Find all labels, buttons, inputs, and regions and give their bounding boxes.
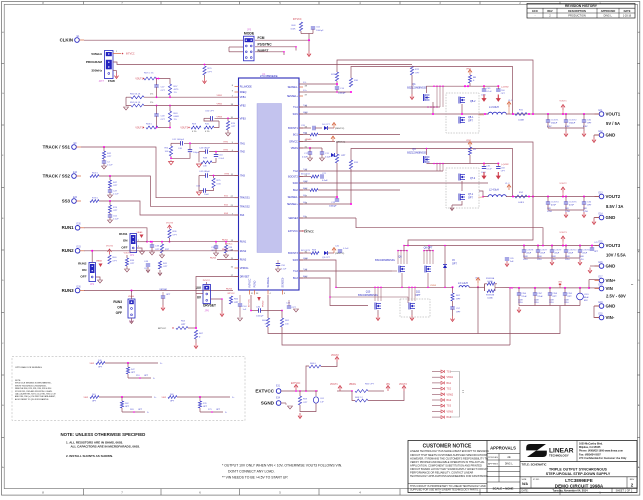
- svg-text:* OUTPUT 10V ONLY WHEN VIN < 1: * OUTPUT 10V ONLY WHEN VIN < 10V, OTHERW…: [222, 463, 342, 467]
- svg-text:10V / 5.5A: 10V / 5.5A: [606, 253, 626, 258]
- svg-text:VSW: VSW: [161, 397, 166, 399]
- svg-text:VBIAS: VBIAS: [137, 231, 144, 234]
- svg-text:TECHNOLOGY APPLICATIONS ENGINE: TECHNOLOGY APPLICATIONS ENGINEERING FOR …: [410, 474, 489, 478]
- svg-text:2.2uF: 2.2uF: [538, 296, 544, 298]
- svg-text:2: 2: [138, 240, 139, 242]
- svg-text:2. INSTALL SHUNTS AS SHOWN.: 2. INSTALL SHUNTS AS SHOWN.: [66, 454, 113, 458]
- svg-text:8.5V / 3A: 8.5V / 3A: [606, 204, 623, 209]
- svg-text:TECHNOLOGY: TECHNOLOGY: [549, 454, 569, 458]
- svg-text:0 1%: 0 1%: [205, 131, 210, 133]
- svg-text:OPT: OPT: [231, 126, 236, 128]
- svg-text:VOUT3: VOUT3: [606, 243, 621, 248]
- svg-text:E34: E34: [276, 397, 281, 399]
- svg-text:NOTE:: NOTE:: [15, 380, 21, 382]
- svg-text:SHEET 1 OF 2: SHEET 1 OF 2: [616, 489, 633, 492]
- svg-text:G: G: [638, 93, 640, 95]
- svg-text:DING L.: DING L.: [505, 464, 514, 466]
- svg-text:TITLE: SCHEMATIC: TITLE: SCHEMATIC: [522, 462, 547, 466]
- svg-text:SENSE3: SENSE3: [288, 217, 298, 220]
- svg-text:VPROG: VPROG: [240, 267, 249, 270]
- svg-text:RUN3: RUN3: [210, 258, 217, 260]
- svg-text:SW3: SW3: [303, 258, 309, 260]
- svg-text:QT-1: QT-1: [468, 194, 474, 196]
- svg-text:4075: 4075: [174, 89, 180, 91]
- svg-text:OPT: OPT: [587, 205, 592, 207]
- svg-text:DATE: DATE: [624, 9, 631, 13]
- svg-text:ON: ON: [82, 268, 87, 272]
- svg-text:PCB DES: PCB DES: [488, 457, 498, 459]
- svg-text:10nF: 10nF: [204, 194, 210, 196]
- svg-text:0.006: 0.006: [487, 281, 493, 283]
- svg-text:OPT: OPT: [161, 90, 166, 92]
- svg-text:150uF: 150uF: [569, 123, 576, 125]
- svg-text:INTVCC: INTVCC: [249, 298, 251, 307]
- svg-text:VIN2: VIN2: [466, 140, 472, 142]
- svg-text:TG1: TG1: [293, 106, 298, 109]
- svg-text:E10: E10: [73, 172, 78, 174]
- svg-text:Phone: (408)432-1900 www.lin: Phone: (408)432-1900 www.linear.com: [579, 450, 624, 453]
- svg-text:SENSE1-: SENSE1-: [288, 86, 298, 89]
- svg-text:OFF: OFF: [121, 245, 127, 249]
- svg-text:OPT: OPT: [113, 261, 118, 263]
- svg-text:OPT: OPT: [456, 299, 461, 301]
- svg-text:0.1uF: 0.1uF: [487, 169, 493, 171]
- svg-text:COUT9: COUT9: [555, 250, 563, 252]
- svg-text:150uF: 150uF: [551, 123, 558, 125]
- svg-text:E15: E15: [598, 241, 603, 243]
- svg-text:E30: E30: [77, 224, 82, 226]
- svg-text:PERFORMANCE OR RELIABILITY. C: PERFORMANCE OR RELIABILITY. CONTACT LINE…: [410, 471, 473, 475]
- svg-text:E16: E16: [598, 262, 603, 264]
- svg-text:VOUT1: VOUT1: [559, 101, 567, 103]
- svg-text:TRACK / SS1: TRACK / SS1: [43, 144, 71, 149]
- svg-text:SENSE3-: SENSE3-: [282, 277, 285, 287]
- svg-text:1%: 1%: [150, 102, 153, 104]
- svg-text:E19: E19: [598, 302, 603, 304]
- svg-text:BG3: BG3: [293, 277, 298, 280]
- svg-text:APPROVED: APPROVED: [601, 9, 616, 13]
- svg-text:10K: 10K: [165, 151, 169, 153]
- svg-text:CUSTOMER NOTICE: CUSTOMER NOTICE: [423, 444, 472, 450]
- svg-text:D6 OPT: D6 OPT: [322, 124, 331, 126]
- svg-text:RUN3: RUN3: [62, 288, 75, 293]
- svg-text:G: G: [2, 93, 4, 95]
- svg-text:SIZE: SIZE: [522, 479, 527, 481]
- svg-text:TRK/SS2: TRK/SS2: [240, 205, 251, 208]
- svg-text:47uF: 47uF: [551, 205, 557, 207]
- svg-text:RUN1: RUN1: [240, 241, 247, 244]
- svg-text:(DRVCC): (DRVCC): [335, 253, 344, 255]
- svg-text:OPT: OPT: [144, 268, 149, 270]
- svg-text:47uF: 47uF: [569, 205, 575, 207]
- svg-text:CALCULATE RS3, R47 & C14, RS1,: CALCULATE RS3, R47 & C14, RS1, RS2 & C19: [15, 393, 56, 396]
- svg-text:BURST: BURST: [258, 49, 269, 53]
- svg-text:RUN1: RUN1: [119, 232, 128, 236]
- svg-text:OPT: OPT: [341, 155, 346, 157]
- svg-text:VOUT3: VOUT3: [124, 253, 132, 255]
- svg-text:VOUT1: VOUT1: [135, 79, 143, 81]
- svg-text:PROGRAM: PROGRAM: [86, 60, 103, 64]
- svg-text:OPT: OPT: [107, 156, 112, 158]
- svg-text:OPT: OPT: [166, 294, 171, 296]
- svg-text:TRACK / SS2: TRACK / SS2: [43, 173, 71, 178]
- svg-text:OPT: OPT: [415, 72, 420, 74]
- svg-text:BG1: BG1: [447, 383, 452, 385]
- svg-text:100K: 100K: [290, 29, 296, 31]
- svg-text:-: -: [535, 15, 536, 18]
- svg-text:GND: GND: [606, 303, 616, 308]
- svg-text:EXTVCC: EXTVCC: [255, 388, 274, 393]
- svg-text:VBIAS: VBIAS: [349, 383, 356, 386]
- svg-text:SPICE DCR SENSING IS IMPLEMENT: SPICE DCR SENSING IS IMPLEMENTED,: [15, 383, 52, 385]
- svg-text:0.1uF: 0.1uF: [487, 91, 493, 93]
- svg-text:3: 3: [138, 246, 139, 248]
- svg-text:JP1: JP1: [130, 254, 135, 257]
- svg-text:RUN2: RUN2: [222, 249, 229, 251]
- svg-text:SW1: SW1: [303, 112, 309, 114]
- svg-text:BSZ123N08NS3G: BSZ123N08NS3G: [407, 152, 427, 155]
- svg-text:VOUT3: VOUT3: [399, 384, 407, 386]
- svg-text:C43 680pF: C43 680pF: [199, 147, 210, 149]
- svg-text:22uF: 22uF: [541, 253, 546, 255]
- svg-text:SGND: SGND: [261, 400, 275, 405]
- svg-text:RUN2: RUN2: [62, 248, 75, 253]
- svg-text:E12: E12: [598, 131, 603, 133]
- svg-text:ALL CAPACITORS ARE IN MICROFAR: ALL CAPACITORS ARE IN MICROFARADS, 0603.: [71, 445, 141, 449]
- svg-text:100V: 100V: [534, 300, 539, 302]
- svg-text:BG2: BG2: [293, 189, 298, 192]
- svg-text:E36: E36: [77, 286, 82, 288]
- svg-text:INTVCC: INTVCC: [126, 54, 135, 56]
- svg-text:68uF: 68uF: [584, 297, 589, 299]
- svg-text:COUT10: COUT10: [569, 250, 578, 252]
- svg-text:VFB2: VFB2: [240, 105, 247, 108]
- svg-text:DATE:: DATE:: [522, 489, 529, 492]
- svg-text:SW3: SW3: [293, 259, 299, 262]
- svg-text:INTVCC: INTVCC: [227, 293, 235, 295]
- svg-text:VSTBM: VSTBM: [159, 289, 166, 291]
- svg-text:COUT4: COUT4: [551, 202, 559, 204]
- svg-text:1uF: 1uF: [320, 402, 324, 404]
- svg-text:ITH3: ITH3: [240, 175, 246, 178]
- svg-text:ON: ON: [123, 239, 128, 243]
- svg-text:VOUT2: VOUT2: [606, 194, 621, 199]
- svg-text:LTC3899EFE: LTC3899EFE: [565, 478, 593, 483]
- svg-text:GND: GND: [606, 263, 616, 268]
- svg-text:VBIAS: VBIAS: [291, 147, 298, 150]
- svg-text:RUN3: RUN3: [113, 300, 122, 304]
- svg-text:VOUT2: VOUT2: [559, 183, 567, 185]
- svg-text:BOOST2: BOOST2: [301, 174, 311, 176]
- svg-text:BSZ123N08NS3G: BSZ123N08NS3G: [407, 87, 427, 90]
- svg-text:INTVCC: INTVCC: [293, 19, 302, 21]
- svg-text:OPT: OPT: [113, 185, 118, 187]
- svg-text:RSNS3A: RSNS3A: [486, 277, 495, 280]
- svg-text:** VIN NEEDS TO BE >4.5V TO ST: ** VIN NEEDS TO BE >4.5V TO START UP.: [222, 475, 288, 479]
- svg-text:BG2: BG2: [447, 400, 452, 402]
- svg-text:SENSE3+: SENSE3+: [267, 276, 270, 287]
- svg-text:1%: 1%: [174, 119, 177, 121]
- svg-text:EXTVCC: EXTVCC: [288, 230, 298, 233]
- svg-text:COUT5: COUT5: [569, 202, 577, 204]
- svg-text:RUN3: RUN3: [240, 259, 247, 262]
- svg-text:100V: 100V: [549, 300, 554, 302]
- svg-text:VOUT3: VOUT3: [180, 128, 188, 130]
- svg-text:AND RS6, R30 (x) C56 PER THE D: AND RS6, R30 (x) C56 PER THE DATA SHEET,: [15, 395, 56, 398]
- svg-text:E13: E13: [598, 192, 603, 194]
- svg-text:ECO: ECO: [532, 9, 538, 13]
- svg-text:OPT: OPT: [181, 324, 186, 326]
- svg-text:E17: E17: [598, 276, 603, 278]
- svg-text:100V: 100V: [518, 300, 523, 302]
- svg-text:TG2: TG2: [293, 170, 298, 173]
- svg-text:S-: S-: [225, 412, 227, 414]
- svg-text:SCALE = NONE: SCALE = NONE: [493, 487, 514, 491]
- svg-text:OPT: OPT: [303, 402, 308, 404]
- svg-text:TG3: TG3: [447, 406, 452, 408]
- svg-text:R52 66.1K: R52 66.1K: [130, 102, 141, 104]
- svg-text:REMOVE RS6, R29, R31, R30, R33: REMOVE RS6, R29, R31, R30, R33 & R34: [15, 388, 51, 390]
- svg-text:OPT: OPT: [501, 93, 506, 95]
- svg-text:1%: 1%: [150, 94, 153, 96]
- svg-text:0.013: 0.013: [518, 202, 524, 204]
- svg-text:VSW3: VSW3: [447, 411, 454, 413]
- svg-text:0.1uF: 0.1uF: [113, 194, 119, 196]
- svg-text:E31: E31: [276, 385, 281, 387]
- svg-text:R66 0: R66 0: [310, 363, 317, 365]
- svg-text:ITH3: ITH3: [224, 174, 230, 176]
- svg-text:INTVCC: INTVCC: [158, 328, 167, 330]
- svg-text:SUPPLIED FOR USE WITH LINEAR T: SUPPLIED FOR USE WITH LINEAR TECHNOLOGY …: [410, 488, 479, 491]
- svg-text:DRVSET: DRVSET: [240, 276, 250, 279]
- svg-text:OPT: OPT: [587, 123, 592, 125]
- svg-text:RUN3: RUN3: [226, 289, 233, 291]
- svg-text:VSW1: VSW1: [447, 377, 454, 379]
- svg-text:L1 6.8uH: L1 6.8uH: [489, 106, 499, 109]
- svg-text:APP ENG: APP ENG: [488, 463, 498, 466]
- svg-text:SS3: SS3: [62, 198, 71, 203]
- svg-text:RUN1: RUN1: [62, 225, 75, 230]
- svg-text:VIN: VIN: [606, 286, 613, 291]
- svg-text:VFB2: VFB2: [217, 104, 223, 106]
- svg-text:(+)VIN2: (+)VIN2: [501, 87, 509, 89]
- svg-text:R65 OPT: R65 OPT: [365, 384, 375, 386]
- svg-text:SENSE1+: SENSE1+: [287, 95, 298, 98]
- svg-text:2.2uF: 2.2uF: [522, 296, 528, 298]
- svg-text:DRVSET: DRVSET: [203, 304, 216, 308]
- svg-text:ITH2: ITH2: [223, 150, 229, 152]
- svg-text:BSC046N08NS3G: BSC046N08NS3G: [375, 259, 395, 262]
- svg-text:VOUT2: VOUT2: [331, 355, 339, 357]
- svg-text:LTC3899EFE: LTC3899EFE: [260, 74, 278, 78]
- svg-text:VSW2: VSW2: [478, 197, 485, 199]
- svg-text:Q8 OPT: Q8 OPT: [424, 247, 433, 250]
- svg-text:SW1: SW1: [293, 113, 299, 116]
- svg-text:REV: REV: [630, 479, 635, 481]
- svg-text:COUT2: COUT2: [569, 120, 577, 122]
- svg-text:VOUT2: VOUT2: [106, 246, 114, 248]
- svg-text:R04 0: R04 0: [92, 173, 99, 175]
- svg-text:FREQ: FREQ: [240, 91, 247, 94]
- svg-text:FSW: FSW: [108, 79, 115, 83]
- svg-text:COUT7: COUT7: [541, 250, 549, 252]
- svg-text:DRVCC: DRVCC: [289, 141, 298, 144]
- svg-text:0.1uF: 0.1uF: [281, 269, 287, 271]
- svg-text:BOOST2: BOOST2: [288, 176, 298, 179]
- svg-text:OPT: OPT: [130, 263, 135, 265]
- svg-text:S2-: S2-: [303, 195, 307, 197]
- svg-text:APPLICATION. COMPONENT SUBSTI: APPLICATION. COMPONENT SUBSTITUTION AND …: [410, 463, 482, 467]
- svg-text:PGND: PGND: [254, 280, 257, 287]
- svg-text:E33: E33: [77, 247, 82, 249]
- svg-text:VOUT3: VOUT3: [166, 223, 174, 225]
- svg-text:ITH2: ITH2: [240, 151, 246, 154]
- svg-text:REV: REV: [547, 9, 553, 13]
- svg-text:INTVCC: INTVCC: [249, 278, 252, 287]
- svg-text:1000pF: 1000pF: [338, 93, 346, 95]
- svg-text:RUN2: RUN2: [240, 250, 247, 253]
- svg-text:QT-2: QT-2: [470, 178, 476, 180]
- svg-text:BG2: BG2: [303, 188, 308, 190]
- svg-text:1000pF: 1000pF: [256, 316, 264, 318]
- svg-text:VIN+: VIN+: [606, 278, 616, 283]
- svg-text:BOOST3: BOOST3: [288, 252, 298, 255]
- svg-text:VFB3: VFB3: [240, 117, 247, 120]
- svg-text:SW2: SW2: [293, 182, 299, 185]
- svg-text:BG3: BG3: [303, 276, 308, 278]
- svg-text:BG3: BG3: [447, 417, 452, 419]
- svg-text:1uF: 1uF: [243, 309, 247, 311]
- svg-text:1000pF: 1000pF: [316, 30, 324, 32]
- svg-text:LINEAR TECHNOLOGY HAS MADE A B: LINEAR TECHNOLOGY HAS MADE A BEST EFFORT…: [410, 449, 489, 453]
- svg-text:C41 1000pF: C41 1000pF: [172, 139, 185, 141]
- svg-text:1: 1: [116, 51, 117, 53]
- svg-text:0.006: 0.006: [487, 297, 493, 299]
- svg-text:R67 0 1%: R67 0 1%: [144, 73, 154, 75]
- svg-text:HOWEVER, IT REMAINS THE CUSTOM: HOWEVER, IT REMAINS THE CUSTOMER'S RESPO…: [410, 456, 488, 460]
- svg-text:E14: E14: [598, 213, 603, 215]
- svg-text:PGND: PGND: [263, 300, 265, 307]
- svg-text:0.008: 0.008: [518, 120, 524, 122]
- svg-text:22uF: 22uF: [555, 253, 560, 255]
- svg-text:RSNS3B: RSNS3B: [486, 295, 495, 297]
- svg-text:JP6: JP6: [205, 309, 210, 313]
- svg-text:VERIFY PROPER AND RELIABLE OPE: VERIFY PROPER AND RELIABLE OPERATION IN …: [410, 460, 485, 464]
- svg-text:GND: GND: [606, 132, 616, 137]
- svg-text:GND: GND: [606, 215, 616, 220]
- svg-text:1%: 1%: [174, 92, 177, 94]
- svg-text:OPTIONAL DCR SENSING: OPTIONAL DCR SENSING: [15, 366, 42, 369]
- svg-text:NOTE: UNLESS OTHERWISE SPECIFI: NOTE: UNLESS OTHERWISE SPECIFIED: [61, 432, 146, 437]
- svg-text:L3 1.2uH: L3 1.2uH: [458, 282, 468, 285]
- svg-text:LTC Confidential-For Customer: LTC Confidential-For Customer Use Only: [579, 457, 627, 460]
- svg-text:DON'T CONNECT ANY LOAD.: DON'T CONNECT ANY LOAD.: [228, 469, 275, 473]
- svg-text:VOUT3: VOUT3: [135, 128, 143, 130]
- svg-text:PS/SYNC: PS/SYNC: [258, 43, 273, 47]
- svg-text:OPT: OPT: [208, 71, 213, 73]
- svg-text:VBIAS: VBIAS: [305, 138, 312, 141]
- svg-text:E20: E20: [598, 313, 603, 315]
- svg-text:1-20-16: 1-20-16: [623, 15, 632, 18]
- svg-text:VSW: VSW: [83, 397, 88, 399]
- svg-text:CLKIN: CLKIN: [60, 37, 73, 42]
- svg-text:BOOST1: BOOST1: [288, 127, 298, 130]
- svg-text:PRODUCTION: PRODUCTION: [568, 14, 586, 18]
- svg-text:R50 66.1K: R50 66.1K: [130, 94, 141, 96]
- svg-text:C56 OPT: C56 OPT: [205, 110, 215, 112]
- svg-text:L2 4.5uH: L2 4.5uH: [489, 189, 499, 192]
- svg-text:OPT: OPT: [113, 210, 118, 212]
- svg-text:N/A: N/A: [522, 482, 528, 486]
- svg-text:BOOST3: BOOST3: [301, 250, 311, 252]
- svg-text:22uF: 22uF: [527, 253, 532, 255]
- svg-text:JP7: JP7: [99, 79, 105, 83]
- svg-text:E18: E18: [598, 284, 603, 286]
- svg-text:22uF: 22uF: [569, 253, 574, 255]
- svg-text:TRK/SS1: TRK/SS1: [240, 197, 251, 200]
- svg-text:OPT: OPT: [468, 198, 473, 200]
- svg-text:R73 0: R73 0: [92, 198, 99, 200]
- svg-text:R68 2.2: R68 2.2: [355, 397, 363, 399]
- svg-text:(DRVCC): (DRVCC): [336, 142, 345, 144]
- svg-text:FCM: FCM: [258, 36, 265, 40]
- svg-text:MODE: MODE: [244, 32, 255, 36]
- svg-text:2.2nF: 2.2nF: [219, 158, 225, 160]
- svg-text:ON: ON: [117, 306, 122, 310]
- svg-text:Milpitas, CA 95035: Milpitas, CA 95035: [579, 446, 601, 449]
- svg-text:OPT: OPT: [501, 171, 506, 173]
- svg-text:1210: 1210: [547, 211, 553, 213]
- svg-text:CIRCUIT THAT MEETS CUSTOMER-SU: CIRCUIT THAT MEETS CUSTOMER-SUPPLIED SPE…: [410, 453, 488, 457]
- svg-text:REVISION HISTORY: REVISION HISTORY: [565, 4, 598, 8]
- svg-text:VFB3: VFB3: [217, 116, 223, 118]
- svg-text:TG2: TG2: [447, 389, 452, 391]
- svg-text:VBIAS: VBIAS: [96, 260, 103, 263]
- svg-text:0.1uF: 0.1uF: [322, 180, 328, 182]
- svg-text:VOUT1: VOUT1: [606, 111, 621, 116]
- svg-text:Fax: (408)434-0507: Fax: (408)434-0507: [579, 453, 601, 456]
- svg-text:STEP-UP/DUAL STEP-DOWN SUPPLY: STEP-UP/DUAL STEP-DOWN SUPPLY: [546, 472, 611, 476]
- svg-text:VSW3: VSW3: [430, 285, 437, 287]
- svg-text:VSW: VSW: [89, 363, 94, 365]
- svg-text:ALSO REFER TO QS0 FOR EXAMPLE.: ALSO REFER TO QS0 FOR EXAMPLE.: [15, 398, 49, 401]
- svg-text:0.1uF: 0.1uF: [107, 165, 113, 167]
- svg-text:VIN: VIN: [558, 282, 562, 284]
- svg-text:AE: AE: [507, 456, 511, 459]
- svg-text:Tuesday, November 04, 2014: Tuesday, November 04, 2014: [552, 488, 588, 492]
- svg-text:JP5: JP5: [247, 29, 252, 32]
- svg-text:535kHz: 535kHz: [91, 52, 102, 56]
- svg-text:TRIPLE OUTPUT SYNCHRONOUS: TRIPLE OUTPUT SYNCHRONOUS: [549, 467, 608, 471]
- svg-text:BG1: BG1: [303, 133, 308, 135]
- svg-text:OPT: OPT: [452, 264, 457, 266]
- svg-text:ITH1: ITH1: [240, 142, 246, 145]
- svg-text:VSW1: VSW1: [478, 115, 485, 117]
- svg-text:OPT: OPT: [416, 294, 421, 297]
- svg-text:VSW2: VSW2: [447, 394, 454, 396]
- svg-text:INTVCC: INTVCC: [203, 280, 211, 282]
- svg-text:2.5V - 60V: 2.5V - 60V: [606, 294, 626, 299]
- svg-text:APPROVALS: APPROVALS: [490, 446, 516, 451]
- svg-text:BG1: BG1: [293, 134, 298, 137]
- svg-text:SENSE2-: SENSE2-: [288, 196, 298, 199]
- svg-text:Q9 OPT: Q9 OPT: [322, 257, 331, 259]
- svg-text:VFB1: VFB1: [217, 95, 223, 97]
- svg-text:E20: E20: [73, 197, 78, 199]
- svg-text:CIRCUIT BOARD LAYOUT MAY SIGNI: CIRCUIT BOARD LAYOUT MAY SIGNIFICANTLY A…: [410, 467, 488, 471]
- svg-text:1000pF: 1000pF: [329, 206, 337, 208]
- svg-text:QB-1: QB-1: [468, 117, 474, 119]
